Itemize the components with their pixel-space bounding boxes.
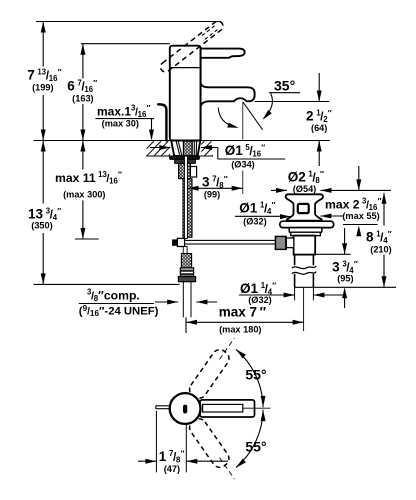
svg-text:35°: 35°: [274, 78, 295, 94]
svg-text:(47): (47): [164, 464, 180, 474]
svg-text:55°: 55°: [245, 367, 266, 383]
svg-text:(95): (95): [337, 274, 353, 284]
svg-text:(max 30): (max 30): [102, 118, 139, 128]
svg-text:(350): (350): [31, 221, 52, 231]
svg-text:6 7/16″: 6 7/16″: [67, 78, 97, 94]
svg-text:(max 55): (max 55): [342, 211, 379, 221]
svg-text:(Ø32): (Ø32): [243, 217, 267, 227]
svg-text:55°: 55°: [245, 439, 266, 455]
svg-text:(163): (163): [72, 93, 93, 103]
svg-text:(210): (210): [370, 244, 391, 254]
svg-text:(99): (99): [204, 190, 220, 200]
svg-text:(64): (64): [311, 123, 327, 133]
svg-text:(Ø54): (Ø54): [293, 184, 317, 194]
svg-text:(max 300): (max 300): [63, 190, 105, 200]
svg-text:max 7 ″: max 7 ″: [219, 305, 267, 320]
svg-text:(max 180): (max 180): [219, 325, 261, 335]
svg-text:(199): (199): [32, 83, 53, 93]
svg-text:(Ø34): (Ø34): [231, 160, 255, 170]
